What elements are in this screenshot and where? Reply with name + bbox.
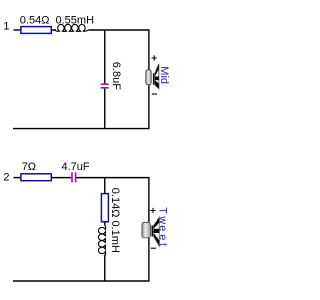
- resistor R2: [21, 174, 51, 181]
- bottom rail circuit 2: [13, 280, 150, 282]
- wire right vertical to speaker Mid: [148, 30, 150, 70]
- svg-text:6.8uF: 6.8uF: [110, 62, 122, 90]
- svg-text:e: e: [157, 225, 169, 231]
- wire speaker Tweet to bottom rail: [148, 238, 150, 281]
- inductor L1: [55, 24, 88, 31]
- wire L1 to corner: [88, 29, 149, 31]
- capacitor C2 plates: [72, 172, 76, 182]
- svg-text:Mid: Mid: [158, 66, 170, 84]
- svg-text:7Ω: 7Ω: [22, 161, 36, 173]
- svg-text:4.7uF: 4.7uF: [62, 161, 90, 173]
- wire junction to R3: [104, 178, 106, 194]
- svg-text:t: t: [157, 243, 169, 246]
- svg-text:1: 1: [3, 20, 9, 32]
- capacitor C1 plates: [101, 84, 109, 88]
- svg-text:0.54Ω: 0.54Ω: [20, 14, 50, 26]
- wire L2 to bottom rail: [104, 255, 106, 281]
- speaker Tweet plus terminal: [150, 208, 155, 213]
- svg-text:w: w: [157, 215, 169, 224]
- wire right vertical to speaker Tweet: [148, 178, 150, 223]
- wire C2 to corner: [76, 177, 149, 179]
- speaker Mid plus terminal: [152, 55, 157, 60]
- wire R2 to C2: [52, 177, 72, 179]
- wire C1 to bottom rail: [104, 89, 106, 129]
- wire node 2 to R2: [14, 177, 21, 179]
- svg-text:2: 2: [3, 171, 9, 183]
- svg-text:T: T: [157, 207, 169, 214]
- wire junction to C1: [104, 30, 106, 83]
- resistor R3: [101, 194, 108, 222]
- speaker Tweet minus terminal: [151, 247, 156, 249]
- bottom rail circuit 1: [13, 128, 150, 130]
- svg-text:0.55mH: 0.55mH: [56, 14, 95, 26]
- wire R1 to L1: [52, 29, 56, 31]
- svg-text:e: e: [157, 234, 169, 240]
- speaker Tweet name: [157, 207, 169, 246]
- svg-text:0.14Ω 0.1mH: 0.14Ω 0.1mH: [109, 188, 121, 253]
- wire speaker Mid to bottom rail: [148, 85, 150, 129]
- speaker Mid minus terminal: [152, 93, 157, 95]
- resistor R1: [21, 27, 51, 34]
- wire R3 to L2: [104, 222, 106, 226]
- speaker Tweet: [142, 217, 159, 245]
- wire node 1 to R1: [14, 29, 21, 31]
- speaker Mid: [146, 64, 159, 89]
- inductor L2: [98, 225, 105, 256]
